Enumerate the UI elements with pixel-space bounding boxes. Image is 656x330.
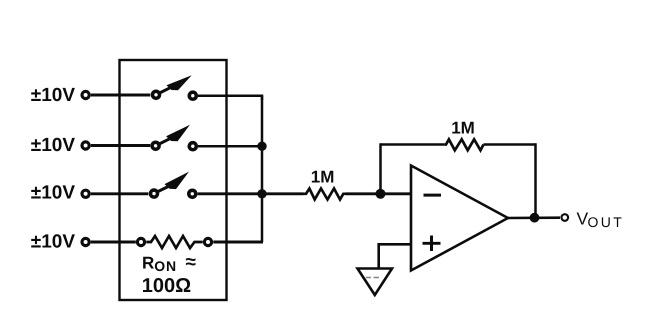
junction summing node	[376, 189, 386, 199]
wire R1 to op-amp input	[346, 192, 412, 195]
svg-text:±10V: ±10V	[31, 85, 76, 106]
switch S3	[151, 172, 196, 198]
wire resistor row4 to bus	[213, 241, 263, 244]
switch S2	[152, 125, 196, 150]
svg-text:1M: 1M	[451, 119, 475, 138]
svg-text:±10V: ±10V	[31, 182, 76, 203]
resistor R2 1M (feedback)	[445, 139, 484, 150]
resistor R1 1M (input)	[304, 189, 346, 200]
label 1M input resistor	[311, 168, 335, 187]
wire feedback top	[381, 143, 536, 146]
wire switch2 out to bus	[198, 145, 262, 148]
junction bus row2	[257, 142, 266, 151]
wire op-amp plus input	[379, 244, 411, 268]
wire feedback right vertical	[534, 143, 537, 217]
svg-text:ON: ON	[154, 258, 177, 274]
terminal input 2	[82, 142, 89, 149]
terminal input 1	[82, 91, 89, 98]
label VOUT	[577, 209, 625, 231]
wire switch1 out to bus corner	[198, 96, 262, 100]
switch S1	[153, 75, 197, 99]
wire input4 to resistor	[91, 241, 136, 244]
svg-text:±10V: ±10V	[31, 231, 76, 252]
svg-text:≈: ≈	[186, 252, 197, 273]
terminal VOUT	[562, 214, 569, 221]
ground	[358, 269, 393, 296]
label ±10V input 2	[31, 135, 76, 156]
wire feedback left vertical	[379, 143, 382, 194]
label ±10V input 3	[31, 182, 76, 203]
label 1M feedback resistor	[451, 119, 475, 138]
wire switch3 out to resistor R1	[198, 192, 304, 195]
junction output node	[530, 213, 540, 223]
wire input2 to switch2	[91, 144, 150, 147]
svg-text:±10V: ±10V	[31, 135, 76, 156]
terminal input 4	[82, 238, 89, 245]
wire input1 to switch1	[91, 94, 150, 97]
svg-text:1M: 1M	[311, 168, 335, 187]
junction bus row3	[257, 189, 266, 198]
terminal input 3	[82, 190, 89, 197]
label RON approx	[142, 252, 197, 297]
svg-text:OUT: OUT	[588, 214, 625, 230]
label ±10V input 1	[31, 85, 76, 106]
wire bus vertical	[261, 96, 264, 242]
svg-text:100Ω: 100Ω	[142, 275, 191, 297]
resistor RON (in box, row 4)	[137, 236, 211, 248]
svg-text:R: R	[142, 254, 154, 273]
wire op-amp output	[506, 216, 560, 219]
wire input3 to switch3	[91, 192, 149, 195]
label ±10V input 4	[31, 231, 76, 252]
switch box outline	[120, 60, 227, 300]
op-amp U1	[411, 166, 508, 271]
